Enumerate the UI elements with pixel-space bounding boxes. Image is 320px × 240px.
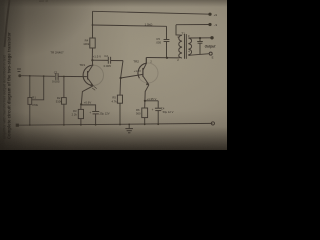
wire emitter TR1 node to C3 xyxy=(81,105,95,111)
node emitter TR1 xyxy=(80,103,82,105)
wire R1 branch xyxy=(29,76,31,98)
wire W1 input xyxy=(21,75,55,78)
node supply tap xyxy=(92,24,94,26)
capacitor C6 xyxy=(199,38,201,41)
rail end terminal xyxy=(211,122,214,125)
wire left supply vertical xyxy=(92,11,94,38)
resistor R6 xyxy=(142,108,148,118)
node emitter TR2 xyxy=(144,100,146,102)
wire primary bottom to Q2 collector xyxy=(146,57,179,59)
emitter tick marks xyxy=(92,88,95,90)
transformer T1 primary xyxy=(179,35,182,58)
capacitor C3 xyxy=(92,111,99,113)
transistor TR2 xyxy=(138,63,158,83)
input terminal xyxy=(18,74,21,77)
transformer core xyxy=(184,34,186,59)
resistor R3 xyxy=(78,109,83,118)
node primary C5 xyxy=(166,57,168,59)
wire jog branch xyxy=(32,76,44,100)
wire secondary bottom to output xyxy=(188,54,209,56)
node input to R1 jog xyxy=(43,75,45,77)
label input marks xyxy=(17,69,21,72)
node rail C4 xyxy=(157,123,159,125)
vertical caption text left edge xyxy=(3,32,12,139)
node rail R3 xyxy=(80,124,82,126)
terminal out top xyxy=(210,36,213,39)
wire emitter node to C4 xyxy=(145,100,158,102)
resistor R4 xyxy=(90,38,95,48)
wire R4 to collector node xyxy=(91,48,93,60)
node base TR1 to R2 xyxy=(63,76,65,78)
wire R2 branch xyxy=(63,77,65,98)
page background xyxy=(0,0,227,150)
capacitor C4 xyxy=(157,101,159,108)
terminal out bottom xyxy=(209,52,212,55)
ground symbol xyxy=(128,125,130,129)
resistor R2 xyxy=(62,98,67,105)
node output C6 xyxy=(199,37,201,39)
node base TR2 xyxy=(120,77,122,79)
terminal B+ xyxy=(208,13,211,16)
resistor R1 xyxy=(28,98,32,105)
ground rail xyxy=(17,123,212,125)
wire top supply rail xyxy=(93,11,211,14)
capacitor C2 xyxy=(107,57,109,64)
terminal B- xyxy=(208,23,211,26)
node rail C3 xyxy=(95,124,97,126)
wire V4 to base node xyxy=(120,61,123,96)
node rail R5 xyxy=(119,124,121,126)
wire secondary top to output xyxy=(188,37,212,39)
node input to R1 xyxy=(29,75,31,77)
wire W3 collector rail xyxy=(92,59,108,61)
wire Q2 base xyxy=(121,74,143,78)
node rail R6 xyxy=(144,123,146,125)
page crease streak top-left xyxy=(5,0,10,47)
node rail R1 xyxy=(29,124,31,126)
shadows over page xyxy=(0,0,26,150)
wire battery B to primary xyxy=(176,24,210,26)
wire W2 mid supply xyxy=(93,25,167,26)
transformer T1 secondary xyxy=(188,38,191,55)
node rail R2 xyxy=(63,124,65,126)
input ground terminal xyxy=(16,124,19,127)
transistor TR1 xyxy=(83,65,103,85)
resistor R5 xyxy=(117,95,122,103)
node rail ground xyxy=(128,124,130,126)
capacitor C1 xyxy=(55,73,57,80)
node collector TR1 xyxy=(91,59,93,61)
page header remnant marks top edge xyxy=(39,0,48,2)
capacitor C5 xyxy=(166,26,168,39)
